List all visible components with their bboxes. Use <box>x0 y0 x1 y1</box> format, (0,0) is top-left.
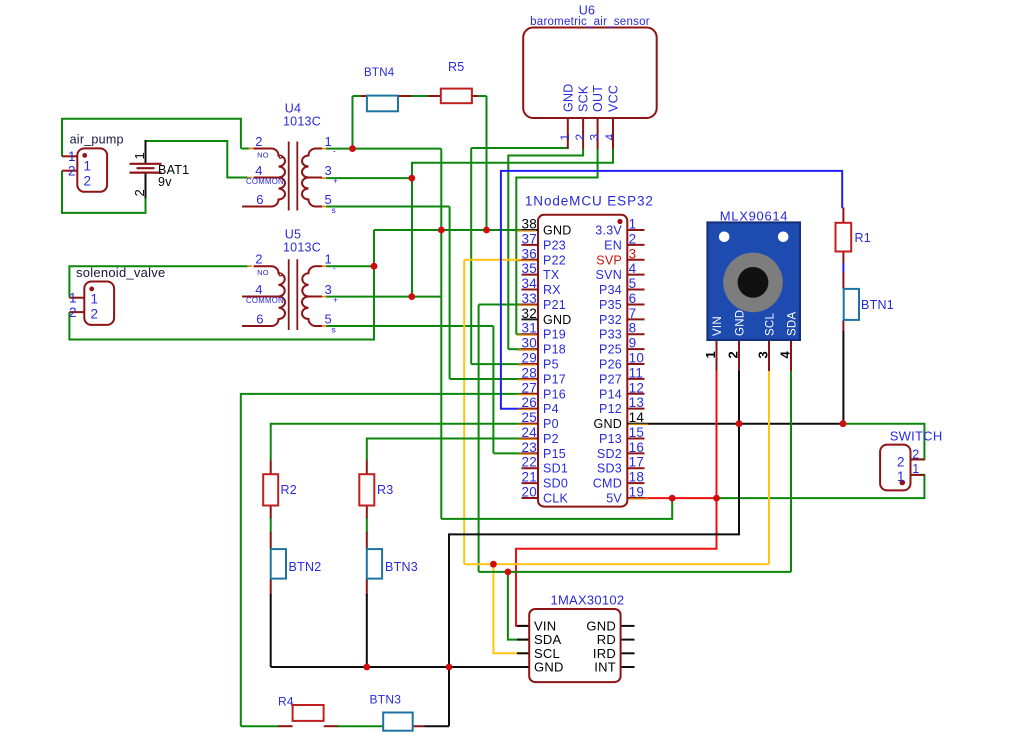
svg-text:1: 1 <box>91 292 99 307</box>
svg-text:28: 28 <box>521 365 537 380</box>
svg-text:2: 2 <box>69 305 77 320</box>
svg-text:1: 1 <box>69 291 77 306</box>
svg-text:12: 12 <box>629 380 645 395</box>
svg-text:2: 2 <box>132 189 147 196</box>
svg-text:P25: P25 <box>599 343 622 357</box>
svg-text:34: 34 <box>521 276 537 291</box>
svg-text:P22: P22 <box>543 253 566 267</box>
svg-text:1013C: 1013C <box>283 115 321 129</box>
svg-text:1013C: 1013C <box>283 241 321 255</box>
svg-text:SD1: SD1 <box>543 462 568 476</box>
svg-text:INT: INT <box>594 660 616 675</box>
svg-text:22: 22 <box>521 455 537 470</box>
svg-text:1: 1 <box>68 149 76 164</box>
svg-text:BTN2: BTN2 <box>289 560 322 574</box>
svg-text:R4: R4 <box>278 695 294 709</box>
svg-text:P14: P14 <box>599 387 622 401</box>
svg-text:2: 2 <box>91 307 99 322</box>
svg-text:s: s <box>332 205 337 215</box>
svg-text:33: 33 <box>521 291 537 306</box>
svg-text:15: 15 <box>629 425 645 440</box>
svg-text:20: 20 <box>521 485 537 500</box>
svg-text:RX: RX <box>543 283 561 297</box>
svg-text:3: 3 <box>588 134 602 141</box>
svg-text:1: 1 <box>325 252 332 267</box>
svg-text:U4: U4 <box>285 102 301 116</box>
svg-text:P16: P16 <box>543 387 566 401</box>
svg-text:9: 9 <box>629 336 637 351</box>
svg-text:5V: 5V <box>606 492 622 506</box>
svg-text:38: 38 <box>521 217 537 232</box>
svg-text:P32: P32 <box>599 313 622 327</box>
svg-text:30: 30 <box>521 336 537 351</box>
svg-text:6: 6 <box>256 192 263 207</box>
svg-text:2: 2 <box>84 174 92 189</box>
svg-text:R5: R5 <box>448 60 464 74</box>
svg-text:NO: NO <box>257 151 269 160</box>
svg-text:3: 3 <box>325 163 332 178</box>
svg-text:2: 2 <box>726 351 741 358</box>
svg-text:SVN: SVN <box>596 268 622 282</box>
svg-text:P12: P12 <box>599 402 622 416</box>
svg-text:P4: P4 <box>543 402 559 416</box>
svg-text:2: 2 <box>255 252 262 267</box>
svg-text:P13: P13 <box>599 432 622 446</box>
svg-text:R1: R1 <box>855 231 871 245</box>
svg-text:23: 23 <box>521 440 537 455</box>
svg-text:1: 1 <box>132 152 147 159</box>
svg-text:SVP: SVP <box>596 253 622 267</box>
svg-text:CMD: CMD <box>593 477 622 491</box>
svg-text:10: 10 <box>629 351 645 366</box>
svg-text:P23: P23 <box>543 238 566 252</box>
svg-text:1: 1 <box>703 351 718 358</box>
svg-text:BTN1: BTN1 <box>861 298 894 312</box>
svg-text:36: 36 <box>521 246 537 261</box>
svg-text:14: 14 <box>629 410 645 425</box>
svg-text:SD0: SD0 <box>543 477 568 491</box>
svg-text:6: 6 <box>629 291 637 306</box>
svg-text:35: 35 <box>521 261 537 276</box>
svg-text:P26: P26 <box>599 358 622 372</box>
svg-text:BTN3: BTN3 <box>385 560 418 574</box>
svg-text:MLX90614: MLX90614 <box>720 209 788 224</box>
svg-text:P19: P19 <box>543 328 566 342</box>
svg-text:SWITCH: SWITCH <box>890 429 943 444</box>
svg-text:2: 2 <box>68 164 76 179</box>
svg-text:29: 29 <box>521 351 537 366</box>
svg-text:4: 4 <box>778 351 793 359</box>
svg-text:4: 4 <box>255 163 262 178</box>
svg-text:4: 4 <box>629 261 637 276</box>
svg-text:3: 3 <box>756 351 771 358</box>
svg-text:GND: GND <box>534 660 564 675</box>
svg-text:1MAX30102: 1MAX30102 <box>551 593 625 608</box>
svg-text:3: 3 <box>325 282 332 297</box>
svg-text:26: 26 <box>521 395 537 410</box>
svg-text:19: 19 <box>629 485 645 500</box>
svg-text:18: 18 <box>629 470 645 485</box>
svg-text:SDA: SDA <box>787 312 799 336</box>
svg-text:VIN: VIN <box>712 316 724 336</box>
svg-text:6: 6 <box>256 312 263 327</box>
svg-text:P21: P21 <box>543 298 566 312</box>
svg-text:GND: GND <box>593 417 622 431</box>
svg-text:13: 13 <box>629 395 645 410</box>
svg-text:R2: R2 <box>281 483 297 497</box>
svg-text:GND: GND <box>543 313 572 327</box>
svg-text:P0: P0 <box>543 417 559 431</box>
svg-text:P5: P5 <box>543 358 559 372</box>
svg-text:3: 3 <box>629 246 637 261</box>
svg-text:P33: P33 <box>599 328 622 342</box>
svg-text:BTN3: BTN3 <box>370 693 402 707</box>
svg-text:P34: P34 <box>599 283 622 297</box>
svg-text:GND: GND <box>543 224 572 238</box>
svg-text:1: 1 <box>325 134 332 149</box>
svg-text:NO: NO <box>257 268 269 277</box>
svg-text:1NodeMCU ESP32: 1NodeMCU ESP32 <box>525 194 654 209</box>
svg-text:25: 25 <box>521 410 537 425</box>
svg-text:7: 7 <box>629 306 637 321</box>
svg-text:P17: P17 <box>543 372 566 386</box>
svg-text:37: 37 <box>521 231 537 246</box>
svg-text:COMMON: COMMON <box>246 296 284 305</box>
svg-text:8: 8 <box>629 321 637 336</box>
svg-text:P35: P35 <box>599 298 622 312</box>
svg-text:P27: P27 <box>599 372 622 386</box>
svg-text:+: + <box>333 295 338 305</box>
svg-text:OUT: OUT <box>591 85 605 112</box>
svg-text:4: 4 <box>603 134 617 141</box>
svg-text:SD2: SD2 <box>597 447 622 461</box>
svg-text:P2: P2 <box>543 432 559 446</box>
svg-text:2: 2 <box>255 134 262 149</box>
svg-text:1: 1 <box>84 159 92 174</box>
svg-text:1: 1 <box>629 217 637 232</box>
svg-text:VCC: VCC <box>607 85 621 112</box>
svg-text:SD3: SD3 <box>597 462 622 476</box>
svg-text:2: 2 <box>897 455 905 470</box>
svg-text:solenoid_valve: solenoid_valve <box>76 265 166 280</box>
svg-text:1: 1 <box>912 462 919 476</box>
svg-text:31: 31 <box>521 321 537 336</box>
svg-text:GND: GND <box>561 83 575 112</box>
svg-text:CLK: CLK <box>543 492 568 506</box>
svg-text:5: 5 <box>629 276 637 291</box>
svg-text:1: 1 <box>558 134 572 141</box>
svg-text:17: 17 <box>629 455 645 470</box>
svg-text:air_pump: air_pump <box>70 133 124 147</box>
svg-text:U5: U5 <box>285 228 301 242</box>
svg-text:9v: 9v <box>158 175 172 189</box>
svg-text:GND: GND <box>735 310 747 336</box>
svg-text:-: - <box>333 146 336 156</box>
svg-text:3.3V: 3.3V <box>595 224 622 238</box>
svg-text:R3: R3 <box>377 483 393 497</box>
svg-text:P15: P15 <box>543 447 566 461</box>
svg-text:+: + <box>333 176 338 186</box>
svg-text:32: 32 <box>521 306 537 321</box>
svg-text:11: 11 <box>629 365 644 380</box>
svg-text:BTN4: BTN4 <box>364 67 395 79</box>
svg-text:4: 4 <box>255 282 262 297</box>
svg-text:COMMON: COMMON <box>246 177 284 186</box>
svg-text:SCL: SCL <box>765 313 777 336</box>
svg-text:SCK: SCK <box>577 85 591 112</box>
svg-text:21: 21 <box>521 470 537 485</box>
svg-text:24: 24 <box>521 425 537 440</box>
svg-text:TX: TX <box>543 268 560 282</box>
svg-text:27: 27 <box>521 380 537 395</box>
svg-text:P18: P18 <box>543 343 566 357</box>
svg-text:EN: EN <box>604 238 622 252</box>
svg-text:2: 2 <box>629 231 637 246</box>
svg-text:barometric_air_sensor: barometric_air_sensor <box>530 16 650 28</box>
svg-text:-: - <box>333 263 336 273</box>
svg-text:2: 2 <box>912 448 919 462</box>
svg-text:16: 16 <box>629 440 645 455</box>
svg-text:s: s <box>332 325 337 335</box>
svg-text:1: 1 <box>897 469 905 484</box>
svg-text:2: 2 <box>573 134 587 141</box>
